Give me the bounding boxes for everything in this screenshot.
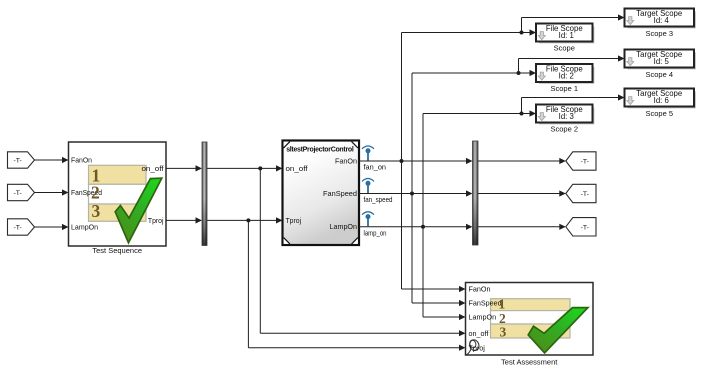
svg-text:-T-: -T- (581, 224, 589, 231)
wire lamp_on branch vertical to scopes and Test Assessment (423, 114, 466, 321)
svg-text:FanOn: FanOn (335, 157, 357, 166)
svg-text:3: 3 (92, 201, 101, 221)
Test Assessment green check mark (528, 308, 588, 353)
wire bar 2 to Goto -T- (2) (478, 190, 566, 196)
From block -T- (left 2) (8, 184, 35, 200)
Goto block -T- (right 2) (566, 184, 596, 202)
signal specification bar 1 (202, 142, 207, 246)
wire to File Scope Id 1 (402, 29, 537, 35)
svg-text:Scope 1: Scope 1 (550, 84, 578, 93)
svg-text:FanOn: FanOn (71, 156, 92, 165)
svg-text:Id: 3: Id: 3 (559, 112, 574, 121)
wire Tproj branch down to Test Assessment (248, 220, 465, 350)
svg-text:FanOn: FanOn (469, 285, 491, 294)
Target Scope Id 4 block (625, 9, 696, 28)
label Scope 1 (550, 84, 578, 93)
wire From1 to Test Sequence input (35, 157, 69, 163)
label Scope 3 (645, 29, 673, 38)
Goto block -T- (right 3) (566, 218, 596, 236)
Test Assessment pen squiggle over Tproj (466, 339, 480, 355)
wire branch to Target Scope Id 4 (522, 14, 625, 32)
Goto block -T- (right 1) (566, 152, 596, 170)
label lamp_on (364, 228, 387, 237)
signal specification bar 2 (473, 141, 479, 245)
File Scope Id 1 block (536, 24, 594, 43)
wire fan_speed: projector to signal bar 2, junction branch (359, 190, 473, 196)
svg-text:sltestProjectorControl: sltestProjectorControl (286, 146, 354, 153)
svg-text:LampOn: LampOn (330, 222, 358, 231)
svg-text:-T-: -T- (581, 191, 589, 198)
svg-text:FanSpeed: FanSpeed (469, 299, 502, 308)
wire fan_speed branch vertical to scopes and Test Assessment (412, 73, 466, 306)
svg-text:on_off: on_off (469, 329, 489, 338)
Test Sequence step numerals (91, 166, 101, 221)
svg-text:on_off: on_off (286, 164, 308, 173)
Test Assessment icon: numbered steps 1,2,3 (491, 299, 571, 338)
svg-text:1: 1 (499, 296, 506, 311)
Test Assessment port labels (469, 285, 502, 353)
wire From3 to Test Sequence input (35, 224, 69, 230)
Test Assessment block (466, 283, 594, 356)
svg-text:LampOn: LampOn (71, 223, 98, 232)
Target Scope Id 6 block (625, 89, 696, 108)
wire From2 to Test Sequence input (35, 189, 69, 195)
svg-text:LampOn: LampOn (469, 313, 497, 322)
Test Assessment step numerals (499, 296, 507, 339)
svg-text:Id: 4: Id: 4 (654, 16, 670, 25)
svg-text:Scope 3: Scope 3 (645, 29, 673, 38)
svg-text:Scope: Scope (554, 44, 575, 53)
svg-text:Tproj: Tproj (286, 216, 302, 225)
svg-text:3: 3 (500, 325, 507, 340)
wire on_off branch down to Test Assessment (260, 168, 465, 336)
svg-text:Id: 1: Id: 1 (559, 31, 574, 40)
wire Tproj: bar to sltestProjectorControl, junction to Test Assessment (207, 217, 283, 223)
File Scope Id 3 block (536, 105, 594, 124)
Target Scope Id 5 block (625, 50, 696, 69)
Test Sequence port labels (71, 156, 164, 232)
svg-text:Id: 6: Id: 6 (654, 96, 669, 105)
sltestProjectorControl model block (283, 141, 360, 246)
File Scope Id 2 block (536, 64, 594, 83)
wire to File Scope Id 2 (412, 70, 536, 76)
test point icon fan_speed (362, 179, 373, 194)
Test Assessment label (501, 357, 558, 366)
test point icon fan_on (362, 146, 373, 161)
svg-text:fan_speed: fan_speed (364, 195, 393, 204)
wire branch to Target Scope Id 5 (519, 55, 625, 73)
From block -T- (left 1) (8, 152, 35, 168)
Test Sequence green check mark (115, 178, 162, 243)
label fan_speed (364, 195, 393, 204)
wire lamp_on: projector to signal bar 2, junction branch (359, 224, 473, 230)
wire on_off: Test Sequence to signal bar (166, 165, 202, 171)
svg-text:Scope 5: Scope 5 (645, 109, 673, 118)
wire fan_on: projector to signal bar 2, junction branch (359, 158, 473, 164)
Test Sequence block (69, 142, 167, 246)
svg-text:Tproj: Tproj (469, 343, 486, 352)
wire on_off: bar to sltestProjectorControl, junction to Test Assessment (207, 165, 283, 171)
Test Sequence icon: numbered steps 1,2,3 (89, 165, 147, 221)
wire bar 2 to Goto -T- (3) (478, 224, 566, 230)
label Scope (554, 44, 575, 53)
svg-text:Scope 2: Scope 2 (550, 125, 578, 134)
From block -T- (left 3) (8, 219, 35, 235)
svg-text:Tproj: Tproj (148, 216, 164, 225)
wire to File Scope Id 3 (423, 110, 536, 116)
wire bar 2 to Goto -T- (1) (478, 158, 566, 164)
svg-text:-T-: -T- (13, 190, 21, 197)
wire Tproj: Test Sequence to signal bar (166, 217, 202, 223)
label fan_on (364, 163, 387, 172)
svg-text:Id: 2: Id: 2 (559, 72, 574, 81)
label Scope 4 (645, 70, 673, 79)
svg-text:on_off: on_off (142, 164, 164, 173)
wire branch to Target Scope Id 6 (522, 94, 625, 113)
svg-text:Id: 5: Id: 5 (654, 57, 670, 66)
svg-text:Test Sequence: Test Sequence (92, 246, 142, 255)
label Scope 2 (550, 125, 578, 134)
svg-text:FanSpeed: FanSpeed (323, 189, 357, 198)
svg-text:Scope 4: Scope 4 (645, 70, 673, 79)
svg-text:2: 2 (91, 183, 100, 203)
svg-text:-T-: -T- (13, 225, 21, 232)
svg-text:-T-: -T- (581, 159, 589, 166)
svg-text:Test Assessment: Test Assessment (501, 357, 558, 366)
label Scope 5 (645, 109, 673, 118)
svg-text:fan_on: fan_on (364, 163, 387, 172)
Test Sequence label (92, 246, 142, 255)
wire fan_on branch vertical to scopes and Test Assessment (402, 33, 466, 293)
svg-text:lamp_on: lamp_on (364, 228, 387, 237)
test point icon lamp_on (362, 212, 373, 227)
svg-text:-T-: -T- (13, 158, 21, 165)
